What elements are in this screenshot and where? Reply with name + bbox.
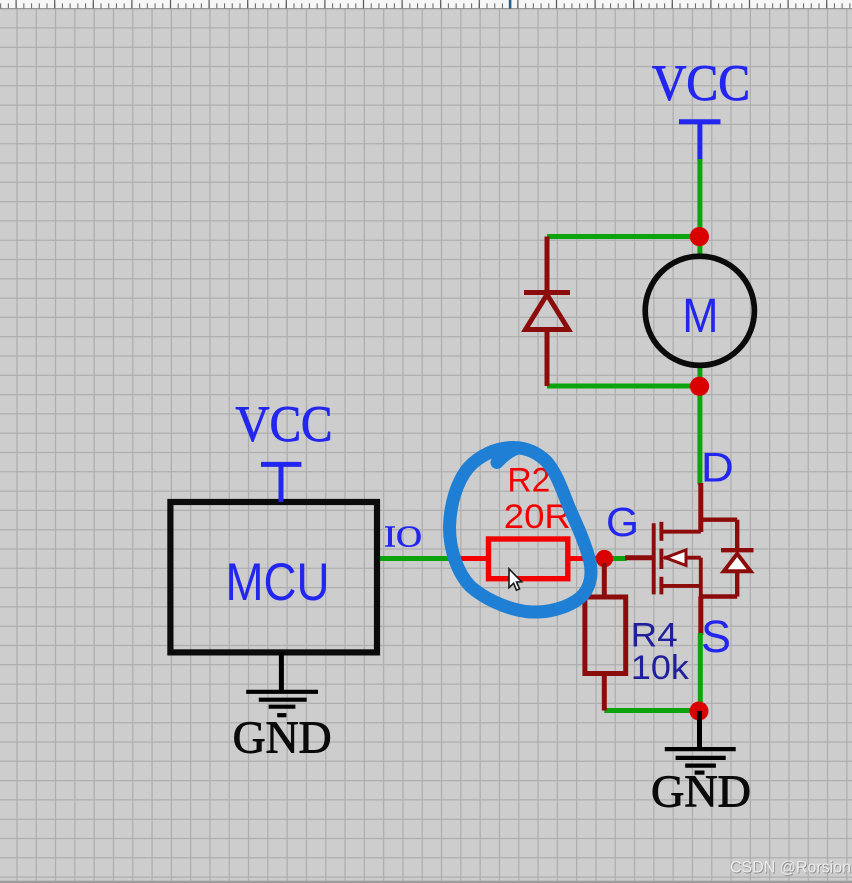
ruler cursor caret xyxy=(509,0,512,9)
wire R4 bottom to junction xyxy=(604,708,699,713)
MOSFET body arrow xyxy=(666,550,687,566)
ground symbol (MCU) xyxy=(246,652,318,715)
svg-text:G: G xyxy=(606,499,639,545)
power symbol VCC (top) xyxy=(679,120,721,162)
wire VCC to junction xyxy=(697,159,702,237)
svg-text:GND: GND xyxy=(233,711,332,762)
svg-text:S: S xyxy=(701,611,731,662)
annotation blue circle around R2 xyxy=(450,447,591,612)
svg-text:CSDN @Rorsion: CSDN @Rorsion xyxy=(730,858,851,877)
wire bottom horizontal xyxy=(547,384,700,389)
wire motor bottom to junction xyxy=(697,366,702,387)
ruler strip xyxy=(0,0,852,9)
wire source to junction xyxy=(698,633,703,712)
svg-text:MCU: MCU xyxy=(226,553,330,612)
svg-text:VCC: VCC xyxy=(652,56,750,112)
motor M1 circle xyxy=(645,256,754,365)
MCU block xyxy=(170,502,377,652)
svg-text:M: M xyxy=(682,290,718,343)
wire gate short segment xyxy=(599,556,627,561)
resistor R2 (selected) xyxy=(454,539,601,579)
junction dot bottom xyxy=(690,702,709,721)
svg-text:GND: GND xyxy=(651,767,751,817)
svg-text:VCC: VCC xyxy=(236,397,333,453)
wire junction to motor top xyxy=(697,237,702,258)
flyback diode xyxy=(524,237,570,387)
MOSFET Q1 xyxy=(625,483,753,635)
wire top horizontal xyxy=(547,234,700,239)
resistor R4 xyxy=(585,563,626,711)
wire junction to drain xyxy=(697,386,702,485)
bottom dark strip xyxy=(0,881,852,883)
svg-text:D: D xyxy=(701,444,734,491)
junction dot gate xyxy=(596,550,613,567)
ground symbol (bottom) xyxy=(665,711,736,773)
MOSFET body diode triangle xyxy=(724,554,751,571)
svg-text:IO: IO xyxy=(384,519,422,554)
junction dot motor bottom xyxy=(690,377,709,396)
svg-text:10k: 10k xyxy=(631,649,690,687)
wire MCU IO to R2 xyxy=(377,556,455,561)
junction dot top xyxy=(690,227,709,246)
power symbol VCC (MCU) xyxy=(261,462,301,502)
mouse cursor xyxy=(509,569,522,590)
